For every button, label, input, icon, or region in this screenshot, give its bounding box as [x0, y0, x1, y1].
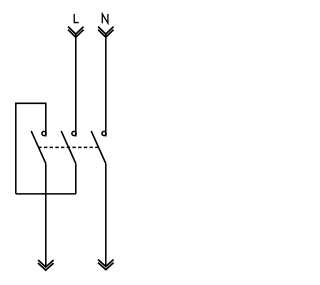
switch pole S2 blade	[61, 131, 76, 164]
wire L terminal to contact S2	[75, 34, 77, 136]
wire bottom bus (junction of loop, S1, S2)	[16, 193, 76, 195]
switch pole S1 blade	[31, 131, 46, 164]
wire N terminal to contact S3	[105, 34, 107, 136]
wire S2 bottom to bus	[75, 164, 77, 194]
terminal L (double chevron)	[68, 27, 84, 38]
switch pole S2 fixed contact	[72, 131, 76, 135]
wire S3 bottom to output arrow	[105, 164, 107, 267]
mechanical linkage (dashed)	[38, 146, 98, 148]
switch pole S3 blade	[91, 131, 106, 164]
output terminal right (double chevron arrow)	[98, 260, 114, 270]
wire loop from S1 top contact (up, left, down to bottom bus)	[16, 103, 46, 194]
output terminal left (double chevron arrow)	[38, 260, 54, 270]
terminal N (double chevron)	[98, 27, 114, 38]
label L	[74, 14, 78, 23]
switch pole S3 fixed contact	[102, 131, 106, 135]
switch pole S1 fixed contact	[42, 131, 46, 135]
wire S1 bottom to output arrow	[45, 164, 47, 268]
label N	[102, 14, 108, 23]
